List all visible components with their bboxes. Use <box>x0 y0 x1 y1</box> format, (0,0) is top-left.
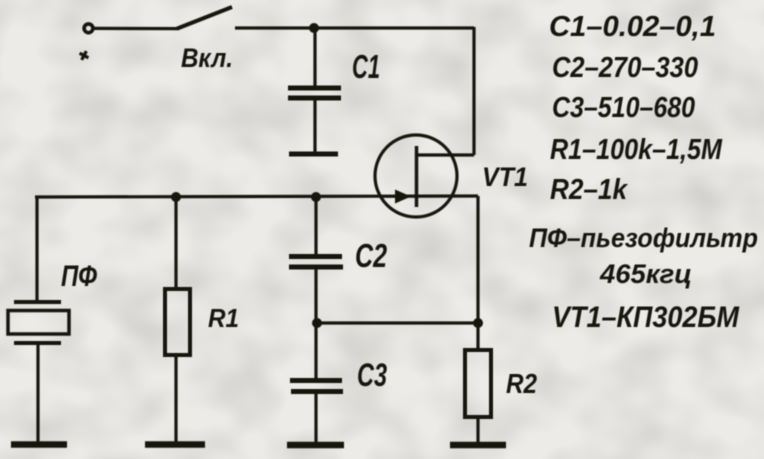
svg-text:ПФ: ПФ <box>61 260 97 293</box>
svg-text:С1–0.02–0,1: С1–0.02–0,1 <box>549 11 716 43</box>
svg-text:R1: R1 <box>208 303 239 333</box>
svg-text:R2: R2 <box>506 368 537 399</box>
svg-text:Вкл.: Вкл. <box>181 43 233 73</box>
svg-text:ПФ–пьезофильтр: ПФ–пьезофильтр <box>529 223 758 253</box>
svg-text:R2–1k: R2–1k <box>550 174 629 206</box>
svg-text:R1–100k–1,5М: R1–100k–1,5М <box>550 134 723 166</box>
svg-text:465кгц: 465кгц <box>599 259 692 289</box>
svg-text:С2: С2 <box>355 237 387 274</box>
svg-text:С3: С3 <box>357 357 387 393</box>
svg-text:С1: С1 <box>352 48 380 85</box>
svg-text:С3–510–680: С3–510–680 <box>552 92 695 124</box>
svg-text:С2–270–330: С2–270–330 <box>552 52 698 84</box>
svg-text:VT1: VT1 <box>482 162 528 192</box>
svg-text:VT1–КП302БМ: VT1–КП302БМ <box>552 301 740 334</box>
